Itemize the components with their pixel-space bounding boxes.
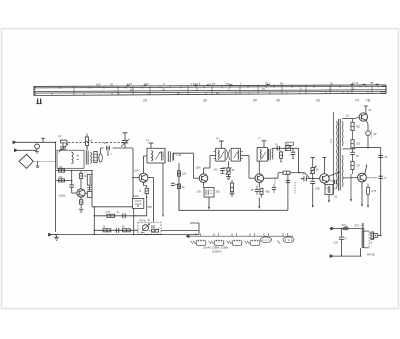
label T5 [334,197,338,199]
wire jack to rail [378,235,382,237]
wire T3 to Q4 [241,156,256,179]
volume line lower [310,174,315,208]
wire antenna to bus [17,141,56,143]
ground under R15 [230,193,235,196]
supply rail corner [368,148,381,236]
left supply bus wire [55,142,57,232]
label R19 [356,126,361,129]
capacitor C11 [291,148,296,159]
IFT T2 core bars [168,151,170,162]
detector output drop [298,148,300,172]
dashed link b [294,182,296,193]
svg-text:SP2: SP2 [355,225,360,228]
IFT T2 winding [152,150,153,161]
label VR2 [316,169,319,172]
resistor R16 [280,151,283,163]
wire T2 to Q2 [144,156,148,173]
tuning slug [93,152,98,163]
wire loop antenna to bus [33,160,55,162]
bias resistor R19 [351,119,354,140]
bottom ground bus [50,234,199,236]
wire Q1 base [72,192,77,194]
wire Q5 emitter [323,183,325,184]
wire coil to corner [101,148,133,154]
oscillator trimmer terminal [123,133,128,141]
IFT T4 arrow [262,152,266,159]
transistor Q4 3rd IF [255,174,264,183]
wire IF1 to Q3 [194,153,200,178]
IFT T3 winding left [217,150,220,160]
resistor R10 under Q2 [144,182,149,216]
ground input terminal [14,149,18,152]
ground bus [178,209,288,211]
transistor Q5 driver [320,174,329,183]
secondary takeoff wire [173,153,194,160]
tuning capacitor C1b [121,139,130,148]
volume row wire [94,229,138,231]
svg-text:45: 45 [276,99,280,103]
IFT T3 supply stub [219,141,224,148]
label 2B1 [216,191,221,194]
label near C12 [251,190,254,192]
resistor R1 [85,134,88,151]
voice coil dashed [368,232,370,248]
svg-text:C-08: C-08 [176,154,182,157]
loop antenna mount stub [36,161,40,167]
T5 top tap to Q6 [342,117,359,118]
bottom bus left terminal [48,233,51,236]
transistor Q2 1st IF [139,173,148,182]
earphone jack J1 [35,144,40,153]
oscillator coil T1 lower [87,185,92,197]
wire row 180 [56,179,72,181]
bias column x179 [178,163,180,210]
ground under T3 [226,174,231,179]
bus ground symbol [54,235,59,241]
svg-text:VR 5k: VR 5k [139,219,147,222]
label R1 [90,140,93,143]
capacitor C22 [286,180,290,182]
capacitor C3 [69,171,74,193]
svg-text:4B: 4B [232,170,235,172]
resistor R4 [79,171,87,189]
label C9 value [214,170,219,172]
mixer line through D1 [133,208,135,234]
capacitor C19 on rail [378,155,388,159]
battery return wire [330,255,361,258]
label C16 [356,155,359,158]
switch terminal arrow [329,227,334,230]
thermistor TH1 [366,131,371,149]
transistor pinout bottom view 3 [232,240,242,245]
svg-text:34: 34 [253,99,257,103]
label osc T1 [84,171,87,173]
IF transformer T3 box right [231,148,240,161]
label near Q1 [59,195,67,198]
pinout lead marks right [278,241,280,244]
pinout lead marks 1 [191,241,196,244]
IFT T3 core cross [226,150,230,161]
label Q5 base cap [302,174,305,176]
svg-text:26: 26 [316,99,320,103]
strip label 25 [143,99,147,103]
IFT T4 secondary [271,150,274,160]
resistor R11 [177,171,186,176]
resistor R23 [367,184,370,208]
strip label 11 [36,99,42,105]
T5 centre tap feed [342,148,368,149]
IF transformer T3 box left [216,148,225,161]
capacitor C13 [301,176,310,181]
Q5 right cap [329,180,336,185]
wire Q4 emitter [258,183,260,188]
junction dot row170 [71,170,72,171]
label R20 [356,143,361,146]
label VR1 [139,219,147,222]
label near R19 top [346,116,350,118]
Q4 to bus arrow [258,198,260,209]
svg-text:1N: 1N [286,144,289,146]
svg-text:52°: 52° [374,133,378,136]
label R10 [139,190,142,193]
IFT T3 arrow right [234,152,238,158]
svg-text:74: 74 [355,99,359,103]
label C15 [335,188,338,191]
svg-text:100: 100 [356,143,361,146]
wire volume to corner [161,229,199,231]
svg-text:C15: C15 [214,170,219,172]
supply line OT [333,112,335,194]
wire Q3 emitter [203,183,205,188]
filter capacitor C20 [339,228,344,256]
T5 primary winding [336,121,339,188]
ground marks below Q1 [79,209,83,212]
driver transformer T5 core [339,119,341,191]
svg-text:2SA: 2SA [197,191,202,194]
junction dot bus top [55,142,57,144]
svg-text:1N60: 1N60 [133,195,139,198]
wire ground terminal to jack [19,149,38,151]
svg-text:2SA: 2SA [134,170,139,173]
on-off switch SW1 [343,226,348,230]
strip label 74 [355,99,359,103]
T5 secondary lower [341,155,344,187]
wire Q7 right [366,177,377,179]
test point stub [41,138,45,142]
svg-text:220: 220 [356,165,361,168]
antenna coil winding [71,152,73,165]
IFT T2 supply stub [149,143,154,148]
svg-text:2SB: 2SB [315,188,320,191]
label near volume [148,220,151,222]
bias resistor R20 [351,140,354,152]
label C10 value [275,144,279,146]
svg-text:2SA52: 2SA52 [59,195,67,198]
antenna coil box [57,150,84,168]
IFT T2 secondary [172,153,175,161]
wire row 170 [56,170,93,172]
svg-text:2B: 2B [302,174,305,176]
svg-text:0.05: 0.05 [372,190,377,193]
capacitor C12 [255,186,259,196]
capacitor C8 [171,183,179,185]
diode label box [286,142,294,146]
detector line down [298,158,300,173]
strip label 7B [366,99,371,103]
capacitor C9 [220,168,228,174]
osc feedback line [91,171,93,207]
tuning gang dashed link [68,142,128,144]
transistor pinout bottom view 1 [196,240,206,245]
label 150k [196,167,202,170]
resistor R13 variable [226,167,232,175]
svg-text:1B: 1B [251,190,254,192]
svg-text:26: 26 [203,99,207,103]
battery B1 [370,232,375,239]
svg-text:25: 25 [143,99,147,103]
junction dot row180 [71,180,72,181]
strip label 26 [316,99,320,103]
wire Q4 audio out [264,173,278,179]
label R13 value [232,170,235,172]
label C-08 [176,154,182,157]
label near R6 [117,212,121,214]
diode D2 [285,146,290,151]
pinout caption line 1 [203,247,229,250]
label T-5B7 [146,207,153,209]
resistor R8 [122,225,130,231]
wire Q4 collector [258,161,260,174]
label under Q3 [197,191,202,194]
coupling capacitor C2 [103,146,112,151]
wire Q3 collector [204,156,216,174]
speaker top stub [361,224,364,228]
pinout oval view 2 [283,237,294,243]
label C2 [104,142,107,145]
label T3 top [216,139,220,141]
volume control dashed box [138,223,161,235]
label T4 top [258,138,262,140]
resistor R7 [103,225,111,231]
oscillator coil core [86,151,88,165]
osc column [94,206,95,235]
resistor R21 [351,161,354,174]
wire Q7 emitter stub [365,165,367,175]
wire Q6 emitter [366,120,368,131]
Q3 block to bus arrow [208,197,210,210]
ground bus left corner [178,189,180,211]
IF transformer T4 box [257,147,267,161]
pinout pin ticks [196,233,288,236]
dashed link a [274,177,276,184]
svg-text:SW: SW [342,224,347,227]
output jack [374,234,378,238]
stub below C2 [107,151,109,156]
oscillator coil T1 upper [87,174,92,185]
svg-text:8 5: 8 5 [226,82,230,86]
pinout caption line 2 [212,249,222,253]
transistor Q1 converter [77,189,85,197]
pinout baseline arrow [186,235,293,238]
AGC row wire [92,206,133,208]
IF transformer T2 box [147,148,165,163]
svg-text:560: 560 [356,126,361,129]
IFT T4 core bars [269,149,271,161]
coil can oval [99,154,102,162]
emitter block Q3 [204,188,214,198]
potentiometer VR2 [310,166,316,174]
volume feed corner [299,172,310,179]
label C20 [344,238,347,241]
IFT T3 arrow left [220,152,224,158]
label PM-2B [367,253,375,256]
svg-text:2SA49, 2SB54, 2SB56: 2SA49, 2SB54, 2SB56 [203,247,229,250]
capacitor C10 [277,146,279,151]
wire switch to speaker [334,228,362,230]
resistor R15 [230,180,233,193]
IFT T4 winding [259,149,262,159]
svg-text:1 35: 1 35 [210,82,216,86]
emitter electrolytic C15 [325,185,333,195]
coupling cap C21 [272,184,276,193]
speaker bottom connection [360,248,361,257]
antenna input terminal [13,141,17,144]
pinout lead marks 2 [209,241,214,244]
IFT T2 slug [162,152,164,161]
oscillator coil winding [90,152,93,164]
pinout oval view 1 [261,237,272,243]
label SW1 [342,224,347,227]
T3 centre tap [228,161,230,168]
label near C2 stub [111,154,113,156]
wire Q6 collector stub [364,106,368,114]
label C1a [58,134,62,138]
speaker bracket top [364,230,369,232]
junction dot osc [91,170,92,171]
svg-text:100: 100 [59,166,64,169]
detector diode box D1 [133,199,144,209]
junction dots bottom bus [55,234,148,236]
strip tick marks [52,85,381,95]
wire Q1 emitter [85,192,87,195]
speaker magnet bars [362,228,364,248]
T5 secondary upper [341,121,344,146]
IFT T4 supply stub [262,141,267,148]
oscillator padder block [61,139,68,143]
wire volume to Q5 [310,178,320,179]
volume line [311,157,315,167]
svg-text:(2SB75): (2SB75) [212,249,222,253]
wire Q5 to transformer [329,172,341,177]
IFT T3 side ticks [213,152,243,159]
svg-text:O.T: O.T [330,138,333,143]
capacitor C18 on rail [379,176,387,180]
pinout lead marks 4 [245,241,250,244]
resistor R17 [260,188,263,197]
strip label 26 [203,99,207,103]
capacitor C5 [116,228,118,233]
T5 bottom tap to Q7 [342,177,358,179]
svg-text:C30: C30 [334,243,339,245]
row2 wire [94,215,146,217]
junction dot mixer base [132,177,134,179]
thermistor bracket [372,130,378,139]
svg-text:PM-2B: PM-2B [367,253,375,256]
svg-text:C1: C1 [58,134,62,138]
label battery [371,242,373,245]
strip label 45 [276,99,280,103]
speaker hatch [362,228,364,248]
strip label 34 [253,99,257,103]
wire Q2 base [133,177,139,179]
speaker bracket bottom [364,247,369,249]
pinout lead marks 3 [227,241,232,244]
transistor pinout bottom view 4 [250,240,260,245]
label Q2 [134,170,139,173]
resistor R3 [59,176,65,182]
svg-text:150: 150 [96,82,101,86]
transistor pinout bottom view 2 [214,240,224,245]
svg-text:4.7k: 4.7k [106,211,111,214]
label SP2 [355,225,360,228]
C15 to arrow [328,195,330,203]
mixer line down [132,148,134,199]
volume switch section [141,225,159,232]
tuning capacitor C1a [59,143,68,153]
strip component reference text [96,81,378,95]
IFT T3 winding right [237,150,240,160]
label near C20 [334,243,339,245]
transistor Q3 2nd IF [199,174,208,183]
label R23 [372,190,377,193]
IFT T2 tuning arrow [156,152,161,160]
resistor R6 [106,211,115,217]
wire Q2 right [148,178,154,223]
label R21 [356,165,361,168]
transistor Q6 output upper [359,113,367,121]
label 4B2 [266,191,271,194]
wire Q7 collector down [361,182,363,207]
chassis layout strip outline [34,85,386,96]
svg-text:150k: 150k [196,167,202,170]
transistor Q7 output lower [358,173,367,182]
label OT vertical [330,138,333,143]
svg-text:7B: 7B [370,81,373,85]
volume feed resistor [278,171,300,174]
detector wire [272,148,298,149]
loop antenna L1 [19,154,33,168]
resistor R12 [177,184,185,189]
label T2 top [146,141,150,143]
wire Q5 collector up [323,157,327,173]
resistor R2 [59,166,65,172]
label Q5 [315,188,320,191]
label D1 [133,195,139,198]
volume potentiometer VR1 [142,223,150,231]
antenna coil taps [77,155,79,159]
capacitor C4 [123,213,137,218]
IFT1 secondary drop [162,163,163,217]
svg-text:2B1: 2B1 [216,191,221,194]
svg-text:4B2: 4B2 [266,191,271,194]
volume return drop [286,174,291,210]
capacitor C16 [350,152,355,161]
resistor R5 [80,197,83,208]
R21 down arrow [350,174,352,202]
volume corner up [190,223,199,235]
label 56 [369,109,372,112]
